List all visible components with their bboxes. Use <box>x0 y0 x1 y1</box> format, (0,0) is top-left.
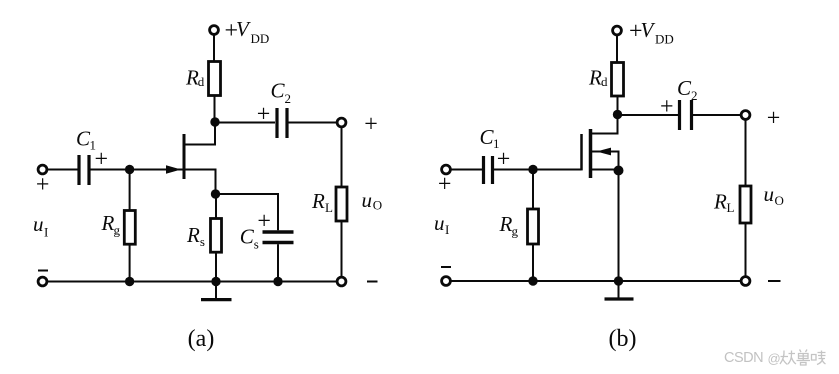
svg-text:C: C <box>271 79 286 103</box>
wire output terminal to RL (a) <box>341 127 343 187</box>
svg-text:CSDN: CSDN <box>724 350 763 366</box>
wire Rg top (a) <box>129 170 131 211</box>
label RL (a) <box>311 189 333 215</box>
wire source node to Cs (a) <box>216 194 279 230</box>
label Cs (a) <box>240 225 259 252</box>
svg-text:+: + <box>660 94 674 120</box>
svg-text:u: u <box>764 182 775 206</box>
ground (a) <box>201 282 232 300</box>
resistor Rs (a) <box>211 219 222 253</box>
terminal input + (a) <box>38 165 47 174</box>
resistor RL (b) <box>740 186 751 223</box>
svg-text:+: + <box>257 102 271 128</box>
svg-text:R: R <box>311 189 325 213</box>
wire gate node to MOSFET gate (b) <box>533 169 582 171</box>
capacitor Cs (a) <box>263 232 294 243</box>
wire gate node to JFET gate (a) <box>130 169 183 171</box>
label C2 (a) <box>271 79 292 107</box>
node gate (a) <box>125 165 134 174</box>
label RL (b) <box>713 190 735 216</box>
label C2 (b) <box>677 76 698 103</box>
resistor Rd (a) <box>209 62 221 96</box>
svg-text:L: L <box>325 200 333 215</box>
svg-text:s: s <box>200 234 205 249</box>
svg-text:u: u <box>434 211 445 235</box>
capacitor C2 (a) <box>277 108 287 138</box>
wire VDD to Rd (a) <box>213 35 215 62</box>
node drain (a) <box>210 117 219 126</box>
terminal +VDD (a) <box>210 26 219 35</box>
node drain (b) <box>613 110 622 119</box>
label Rs (a) <box>186 223 205 249</box>
terminal input + (b) <box>442 165 451 174</box>
svg-text:g: g <box>512 224 519 239</box>
capacitor C2 (b) <box>680 100 692 130</box>
label +VDD (b) <box>629 18 674 47</box>
terminal output + (a) <box>337 118 346 127</box>
svg-text:O: O <box>373 198 382 213</box>
label - output (b) <box>768 280 781 282</box>
svg-text:d: d <box>601 74 608 89</box>
svg-text:R: R <box>713 190 727 214</box>
wire input to C1 (b) <box>451 169 482 171</box>
svg-text:I: I <box>44 225 48 240</box>
wire Rd to drain node (a) <box>214 96 216 123</box>
label - input (a) <box>38 270 48 272</box>
svg-text:+: + <box>767 106 781 132</box>
svg-text:2: 2 <box>691 88 698 103</box>
svg-text:R: R <box>588 66 602 90</box>
svg-text:I: I <box>445 222 449 237</box>
wire source to rail (b) <box>618 171 620 282</box>
svg-text:C: C <box>677 76 692 100</box>
svg-text:+: + <box>364 112 378 138</box>
wire Rg to rail (a) <box>129 244 131 281</box>
terminal output + (b) <box>741 111 750 120</box>
wire Rd to drain node (b) <box>617 96 619 115</box>
wire VDD to Rd (b) <box>616 35 618 62</box>
watermark glyph lou <box>812 351 826 365</box>
svg-text:d: d <box>198 74 205 89</box>
node source (a) <box>211 189 220 198</box>
resistor Rg (b) <box>528 209 539 244</box>
node gate (b) <box>528 165 537 174</box>
bottom rail (a) <box>48 281 337 283</box>
svg-text:u: u <box>362 188 373 212</box>
node Rg rail (b) <box>528 276 537 285</box>
resistor RL (a) <box>336 187 347 221</box>
label uI (a) <box>33 212 48 240</box>
watermark CSDN <box>724 350 781 366</box>
svg-text:V: V <box>236 17 251 41</box>
svg-text:g: g <box>114 223 121 238</box>
svg-text:+: + <box>257 208 271 234</box>
svg-text:(b): (b) <box>609 326 637 352</box>
wire Rs to rail (a) <box>215 252 217 281</box>
node Rg rail (a) <box>125 277 134 286</box>
svg-text:2: 2 <box>285 91 292 106</box>
svg-text:L: L <box>727 200 735 215</box>
svg-text:R: R <box>186 223 200 247</box>
wire drain node to C2 (a) <box>215 122 275 124</box>
svg-text:C: C <box>240 225 255 249</box>
watermark glyph yao <box>780 350 826 366</box>
bottom rail (b) <box>451 280 741 282</box>
svg-text:DD: DD <box>655 32 674 47</box>
svg-text:V: V <box>641 18 656 42</box>
label - output (a) <box>367 281 378 283</box>
svg-text:u: u <box>33 212 44 236</box>
wire C1 to gate node (b) <box>494 169 533 171</box>
wire C2 to output terminal (b) <box>693 114 741 116</box>
wire drain node to C2 (b) <box>618 114 679 116</box>
terminal output - (a) <box>337 277 346 286</box>
svg-text:@: @ <box>768 351 781 366</box>
transistor MOSFET T (b) <box>582 119 624 178</box>
wire RL to bottom terminal (a) <box>341 221 343 277</box>
terminal +VDD (b) <box>613 26 622 35</box>
svg-text:s: s <box>254 237 259 252</box>
transistor JFET T (a) <box>166 126 216 190</box>
label Rd (a) <box>185 66 205 90</box>
node Cs rail (a) <box>273 277 282 286</box>
resistor Rg (a) <box>124 211 135 245</box>
terminal output - (b) <box>741 277 750 286</box>
wire output terminal to RL (b) <box>745 120 747 186</box>
capacitor C1 (b) <box>484 156 493 184</box>
label - input (b) <box>441 266 451 268</box>
svg-text:+: + <box>36 172 50 198</box>
label C1 (a) <box>76 126 96 152</box>
svg-text:+: + <box>438 172 452 198</box>
label C1 (b) <box>480 125 500 151</box>
label uI (b) <box>434 211 449 237</box>
svg-text:R: R <box>499 212 513 236</box>
wire Rg top (b) <box>532 170 534 210</box>
ground (b) <box>605 281 634 299</box>
wire Rg to rail (b) <box>532 244 534 281</box>
capacitor C1 (a) <box>79 155 89 185</box>
label uO (b) <box>764 182 784 208</box>
terminal input - (b) <box>442 277 451 286</box>
terminal input - (a) <box>38 277 47 286</box>
wire C1 to gate node (a) <box>91 169 130 171</box>
svg-text:(a): (a) <box>188 326 215 352</box>
svg-text:R: R <box>101 211 115 235</box>
watermark glyph shou <box>797 350 811 366</box>
wire source node to Rs (a) <box>215 194 217 219</box>
label uO (a) <box>362 188 383 213</box>
wire Cs to rail (a) <box>277 244 279 281</box>
label Rd (b) <box>588 66 608 90</box>
resistor Rd (b) <box>612 63 624 97</box>
wire input to C1 (a) <box>47 169 77 171</box>
label +VDD (a) <box>225 17 270 46</box>
wire C2 to output terminal (a) <box>288 122 337 124</box>
label Rg (b) <box>499 212 519 239</box>
node source rail (b) <box>614 276 623 285</box>
node Rs rail (a) <box>211 277 220 286</box>
svg-text:DD: DD <box>251 31 270 46</box>
label Rg (a) <box>101 211 121 238</box>
wire RL to bottom terminal (b) <box>745 223 747 276</box>
svg-text:O: O <box>775 193 784 208</box>
